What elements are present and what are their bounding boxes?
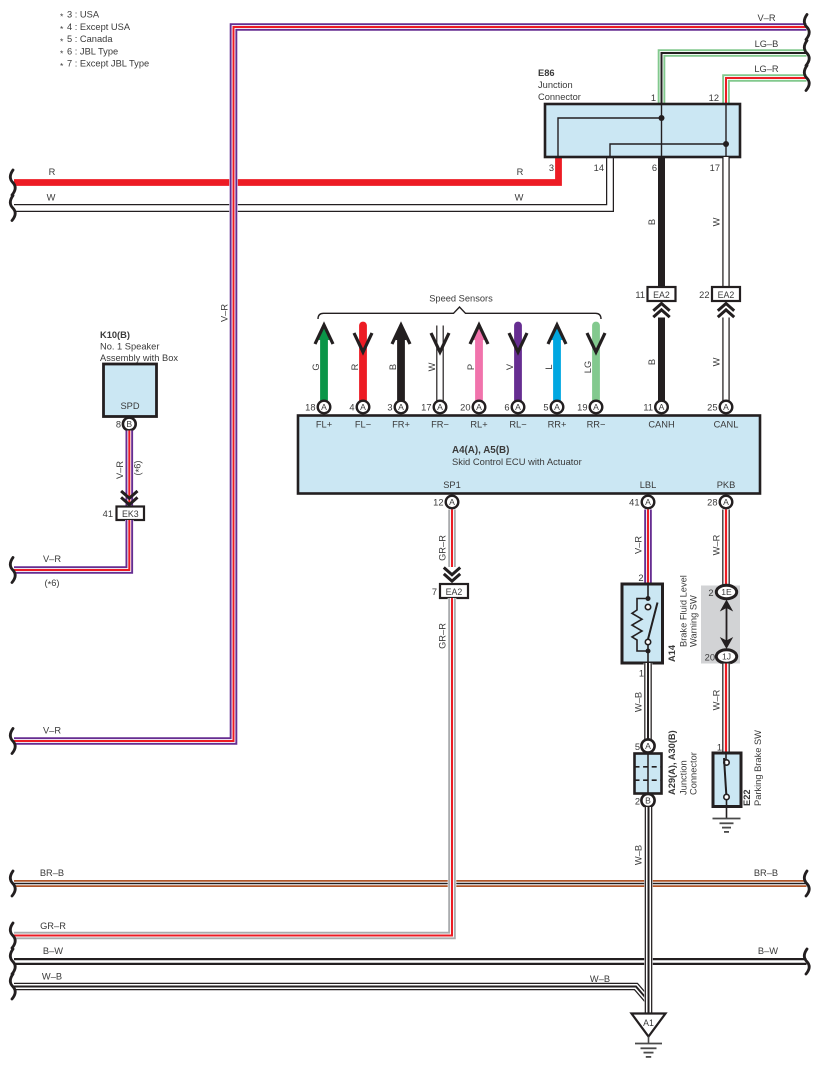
svg-text:E86: E86 (538, 68, 555, 78)
svg-text:11: 11 (643, 403, 653, 413)
svg-text:CANL: CANL (714, 420, 739, 430)
svg-text:Connector: Connector (689, 752, 699, 795)
A14 internal resistor (632, 599, 648, 652)
wire W-B from A29 to ground A1 (634, 807, 649, 1013)
svg-text:Skid Control ECU with Actuator: Skid Control ECU with Actuator (452, 456, 582, 467)
svg-text:6: 6 (504, 403, 509, 413)
A14 internal switch (645, 603, 657, 664)
svg-text:FR−: FR− (431, 420, 449, 430)
svg-text:7: 7 (432, 587, 437, 597)
svg-text:W–R: W–R (712, 689, 722, 710)
connector oval 1E pin 2 (708, 585, 736, 599)
ECU pin 17 (FR&#8722;) (421, 401, 449, 430)
svg-text:GR–R: GR–R (438, 535, 448, 561)
svg-text:Junction: Junction (538, 80, 573, 90)
inline connector block 1E/1J (701, 586, 740, 664)
svg-text:A4(A), A5(B): A4(A), A5(B) (452, 445, 509, 456)
svg-text:1: 1 (717, 743, 722, 753)
svg-text:A: A (449, 497, 455, 507)
svg-text:5: 5 (635, 742, 640, 752)
junction connector E86 (538, 68, 740, 157)
E22 chassis ground (713, 819, 741, 832)
wire W-B bottom (10, 972, 648, 1002)
ECU pin 4 (FL&#8722;) (349, 401, 371, 430)
svg-text:BR–B: BR–B (754, 868, 778, 878)
speaker K10(B) (100, 330, 178, 417)
svg-text:41: 41 (103, 509, 113, 519)
wire W (CANL upper) (712, 157, 727, 287)
svg-text:*: * (60, 24, 64, 34)
svg-text:W–B: W–B (42, 972, 62, 982)
svg-text:2: 2 (708, 588, 713, 598)
svg-text:EA2: EA2 (718, 290, 735, 300)
E86 internal busbar pin3-pin1-pin6 (558, 104, 665, 157)
svg-text:*: * (60, 49, 64, 59)
svg-text:W–B: W–B (634, 692, 644, 712)
svg-text:3: 3 (387, 403, 392, 413)
speed sensor wire W (427, 326, 449, 401)
connector EA2 pin 11 (635, 287, 675, 301)
svg-text:CANH: CANH (648, 420, 674, 430)
svg-text:K10(B): K10(B) (100, 330, 130, 340)
svg-text:B–W: B–W (43, 946, 63, 956)
svg-text:PKB: PKB (717, 480, 736, 490)
svg-text:19: 19 (577, 403, 587, 413)
svg-text:R: R (49, 167, 56, 177)
svg-text:A: A (593, 402, 599, 412)
svg-text:B–W: B–W (758, 946, 778, 956)
svg-text:5: 5 (543, 403, 548, 413)
E86 pin numbers (549, 93, 720, 173)
wire W-R from 1J to E22 (712, 664, 727, 754)
wire V-R from LBL to A14 (634, 510, 649, 585)
wire W-R from PKB to 1E (712, 510, 727, 586)
speed sensor wire LG (583, 326, 605, 401)
svg-text:28: 28 (707, 498, 717, 508)
svg-text:A: A (360, 402, 366, 412)
wire B (CANH upper) (647, 157, 662, 287)
E86 internal busbar pin14-pin12-pin17 (610, 104, 729, 157)
brake fluid level warning switch A14 (622, 575, 699, 663)
speed sensor wire P (466, 324, 488, 401)
svg-text:W: W (712, 357, 722, 366)
speed sensor wire G (311, 324, 333, 401)
svg-text:RR+: RR+ (548, 420, 567, 430)
svg-text:P: P (466, 364, 476, 370)
svg-text:7 : Except JBL Type: 7 : Except JBL Type (67, 59, 149, 69)
arrow into EA2 pin 22 (718, 304, 734, 311)
wire V-R main run (10, 13, 809, 754)
svg-text:RR−: RR− (587, 420, 606, 430)
svg-text:W–R: W–R (712, 534, 722, 555)
svg-text:W: W (427, 362, 437, 371)
svg-text:W–B: W–B (590, 974, 610, 984)
ground A1 (632, 1014, 666, 1057)
svg-text:22: 22 (699, 290, 709, 300)
svg-text:V–R: V–R (220, 304, 230, 322)
svg-text:GR–R: GR–R (40, 921, 66, 931)
wire V-R EK3 to left edge (10, 520, 129, 590)
speed sensor wire V (505, 326, 527, 401)
svg-text:Warning SW: Warning SW (689, 595, 699, 647)
ECU pin 11 (CANH) (643, 401, 674, 430)
svg-text:20: 20 (460, 403, 470, 413)
svg-text:L: L (544, 364, 554, 369)
ECU A4(A), A5(B) Skid Control ECU with Actuator (298, 416, 760, 494)
svg-text:20: 20 (705, 653, 715, 663)
svg-text:14: 14 (594, 163, 604, 173)
svg-text:Assembly with Box: Assembly with Box (100, 353, 178, 363)
wire B (CANH lower) (647, 318, 662, 401)
svg-text:E22: E22 (742, 789, 752, 806)
svg-text:SPD: SPD (120, 401, 139, 411)
E22 internal switch (724, 753, 729, 819)
ECU pin 18 (FL+) (305, 401, 332, 430)
wire GR-R from EA2 to left edge (10, 598, 452, 948)
svg-text:Connector: Connector (538, 92, 581, 102)
svg-text:V–R: V–R (115, 461, 125, 479)
ECU pin 5 (RR+) (543, 401, 566, 430)
connector oval 1J pin 20 (705, 650, 737, 664)
svg-text:B: B (388, 364, 398, 370)
svg-text:12: 12 (433, 498, 443, 508)
junction connector A29(A), A30(B) body (635, 730, 699, 795)
speed sensor wire L (544, 324, 566, 401)
ECU bottom pin 12 (SP1) (433, 496, 458, 509)
svg-text:12: 12 (709, 93, 719, 103)
mating arrows between 1E and 1J (720, 600, 733, 650)
wire R (10, 157, 558, 195)
ECU pin 19 (RR&#8722;) (577, 401, 605, 430)
svg-text:A: A (398, 402, 404, 412)
svg-text:LG: LG (583, 361, 593, 373)
svg-text:W: W (712, 217, 722, 226)
connector EK3 pin 41 (103, 507, 144, 521)
connector EA2 pin 22 (699, 287, 740, 301)
svg-text:W: W (47, 193, 56, 203)
ECU pin 20 (RL+) (460, 401, 488, 430)
svg-text:RL+: RL+ (470, 420, 487, 430)
svg-text:A: A (515, 402, 521, 412)
wire W (10, 157, 610, 221)
wire BR-B bottom (10, 868, 809, 896)
svg-text:3 : USA: 3 : USA (67, 10, 100, 20)
wire GR-R from SP1 to EA2 (438, 510, 453, 568)
svg-text:FL+: FL+ (316, 420, 332, 430)
junction connector A29 pin 2 circle B (635, 794, 655, 807)
svg-text:SP1: SP1 (443, 480, 461, 490)
svg-text:Speed Sensors: Speed Sensors (429, 294, 493, 304)
speed sensors bracket label (318, 294, 601, 320)
svg-text:1J: 1J (722, 652, 731, 662)
svg-text:A1: A1 (643, 1018, 654, 1028)
wire W (CANL lower) (712, 318, 727, 401)
svg-text:V: V (505, 363, 515, 370)
svg-text:B: B (647, 219, 657, 225)
svg-text:3: 3 (549, 163, 554, 173)
speed sensor wire R (350, 326, 372, 401)
svg-text:A: A (723, 402, 729, 412)
wire B-W bottom (10, 946, 809, 974)
svg-text:(*6): (*6) (44, 578, 59, 590)
svg-text:6: 6 (652, 163, 657, 173)
svg-text:A: A (659, 402, 665, 412)
ECU pin 6 (RL&#8722;) (504, 401, 526, 430)
parking brake switch E22 (713, 730, 763, 807)
svg-text:*: * (60, 61, 64, 71)
svg-text:41: 41 (629, 498, 639, 508)
legend notes (60, 10, 149, 71)
svg-text:LG–R: LG–R (754, 64, 779, 74)
svg-text:1E: 1E (721, 587, 732, 597)
arrow into EK3 (121, 491, 137, 498)
svg-text:Junction: Junction (679, 760, 689, 795)
svg-text:11: 11 (635, 290, 645, 300)
svg-text:A: A (554, 402, 560, 412)
svg-text:4: 4 (349, 403, 354, 413)
svg-text:4 : Except USA: 4 : Except USA (67, 22, 131, 32)
svg-text:W: W (515, 193, 524, 203)
svg-text:BR–B: BR–B (40, 868, 64, 878)
svg-text:EA2: EA2 (446, 587, 463, 597)
svg-text:17: 17 (710, 163, 720, 173)
svg-text:W–B: W–B (634, 845, 644, 865)
svg-text:LG–B: LG–B (755, 39, 779, 49)
svg-text:A: A (645, 741, 651, 751)
svg-text:2: 2 (638, 573, 643, 583)
svg-text:B: B (126, 419, 132, 429)
ECU bottom pin 41 (LBL) (629, 496, 654, 509)
svg-text:25: 25 (707, 403, 717, 413)
svg-text:V–R: V–R (43, 726, 61, 736)
ECU pin 25 (CANL) (707, 401, 738, 430)
connector EA2 pin 7 (432, 584, 468, 598)
svg-text:A: A (723, 497, 729, 507)
svg-text:*: * (60, 36, 64, 46)
A14 internal: feed line and junction dots (646, 584, 651, 654)
svg-text:V–R: V–R (43, 554, 61, 564)
svg-text:A14: A14 (667, 644, 677, 662)
svg-text:EK3: EK3 (122, 509, 139, 519)
svg-text:1: 1 (639, 669, 644, 679)
svg-text:1: 1 (651, 93, 656, 103)
svg-text:R: R (350, 363, 360, 370)
svg-text:A29(A), A30(B): A29(A), A30(B) (667, 730, 677, 795)
svg-text:Brake Fluid Level: Brake Fluid Level (679, 575, 689, 647)
svg-text:B: B (647, 359, 657, 365)
svg-text:2: 2 (635, 797, 640, 807)
arrow into EA2 pin 11 (653, 304, 669, 311)
svg-text:18: 18 (305, 403, 315, 413)
svg-text:FL−: FL− (355, 420, 371, 430)
svg-text:V–R: V–R (634, 536, 644, 554)
ECU pin 3 (FR+) (387, 401, 410, 430)
svg-text:G: G (311, 363, 321, 370)
svg-text:V–R: V–R (757, 13, 775, 23)
svg-text:A: A (321, 402, 327, 412)
svg-text:A: A (437, 402, 443, 412)
svg-text:No. 1 Speaker: No. 1 Speaker (100, 342, 159, 352)
svg-text:(*6): (*6) (133, 460, 145, 475)
svg-text:8: 8 (116, 420, 121, 430)
wire V-R K10 to EK3 (115, 431, 144, 507)
junction connector A29(A), A30(B) pin 5 circle A (635, 739, 655, 752)
svg-text:A: A (645, 497, 651, 507)
svg-text:A: A (476, 402, 482, 412)
svg-text:EA2: EA2 (653, 290, 670, 300)
svg-text:B: B (645, 796, 651, 806)
wire W-B from A14 pin 1 to A29 (634, 663, 649, 740)
speed sensor wire B (388, 324, 410, 401)
wire LG-B (662, 39, 810, 104)
ECU bottom pin 28 (PKB) (707, 496, 732, 509)
svg-text:R: R (517, 167, 524, 177)
svg-text:Parking Brake SW: Parking Brake SW (753, 730, 763, 806)
arrow into EA2 pin 7 (444, 568, 460, 575)
svg-text:GR–R: GR–R (438, 623, 448, 649)
svg-text:FR+: FR+ (392, 420, 410, 430)
svg-text:5 : Canada: 5 : Canada (67, 34, 113, 44)
svg-text:LBL: LBL (640, 480, 657, 490)
svg-text:RL−: RL− (509, 420, 526, 430)
svg-text:*: * (60, 12, 64, 22)
svg-text:6 : JBL Type: 6 : JBL Type (67, 46, 118, 56)
wire LG-R (726, 64, 809, 104)
svg-text:17: 17 (421, 403, 431, 413)
K10 pin 8 circle B (116, 418, 136, 431)
